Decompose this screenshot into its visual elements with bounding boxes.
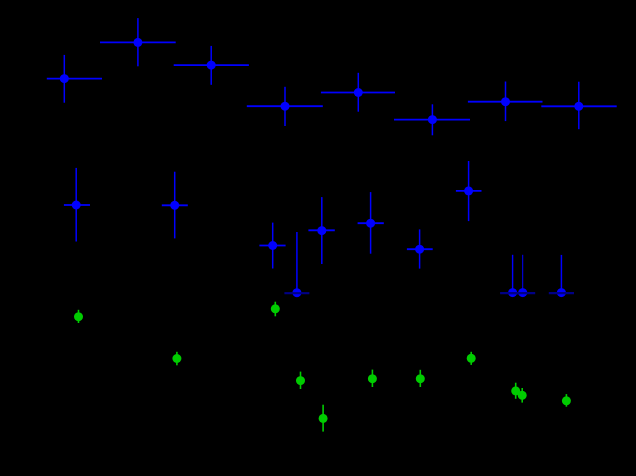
data point P14 (blue, narrow cross) [407, 229, 433, 268]
data point G7 (green, short y error bar) [416, 370, 425, 387]
data point P3 (blue, cross error bars) [174, 46, 249, 85]
data point G1 (green, short y error bar) [74, 310, 83, 323]
data point G5 (green, y error bar) [319, 405, 328, 432]
data point P8 (blue, cross error bars) [541, 82, 616, 130]
data point P12 (blue, narrow cross) [308, 197, 334, 264]
data point G2 (green, short y error bar) [172, 352, 181, 366]
data point G6 (green, short y error bar) [368, 370, 377, 387]
data point P13 (blue, narrow cross) [358, 192, 384, 254]
data point G4 (green, short y error bar) [296, 372, 305, 389]
data point P2 (blue, cross error bars) [100, 18, 176, 66]
data point G9 (green, short y error bar) [511, 383, 520, 399]
data point P7 (blue, cross error bars) [468, 82, 543, 122]
data point P19 (blue dot, long upper bar, faint x-bar) [549, 255, 574, 297]
data point P1 (blue, cross error bars) [47, 55, 102, 103]
data point G3 (green, short y error bar) [271, 302, 280, 317]
data point P5 (blue, cross error bars) [321, 73, 395, 112]
data point G10 (green, short y error bar, overlaps G9) [518, 388, 527, 403]
data point P17 (blue dot, long upper bar, faint x-bar) [500, 255, 525, 297]
data point P15 (blue, narrow cross) [456, 161, 482, 221]
data point G8 (green, short y error bar) [467, 352, 476, 365]
data point P10 (blue, narrow cross) [162, 172, 188, 239]
data point P11 (blue, narrow cross) [259, 223, 285, 269]
data point P18 (blue dot, long thin upper bar, faint x-bar) [510, 255, 535, 297]
data point P6 (blue, cross error bars) [394, 104, 470, 135]
data point P16 (blue dot, long upper bar, faint x-bar) [284, 232, 309, 297]
data point G11 (green, short y error bar) [562, 394, 571, 407]
data point P9 (blue, narrow cross) [64, 168, 90, 242]
data point P4 (blue, cross error bars) [247, 87, 323, 126]
